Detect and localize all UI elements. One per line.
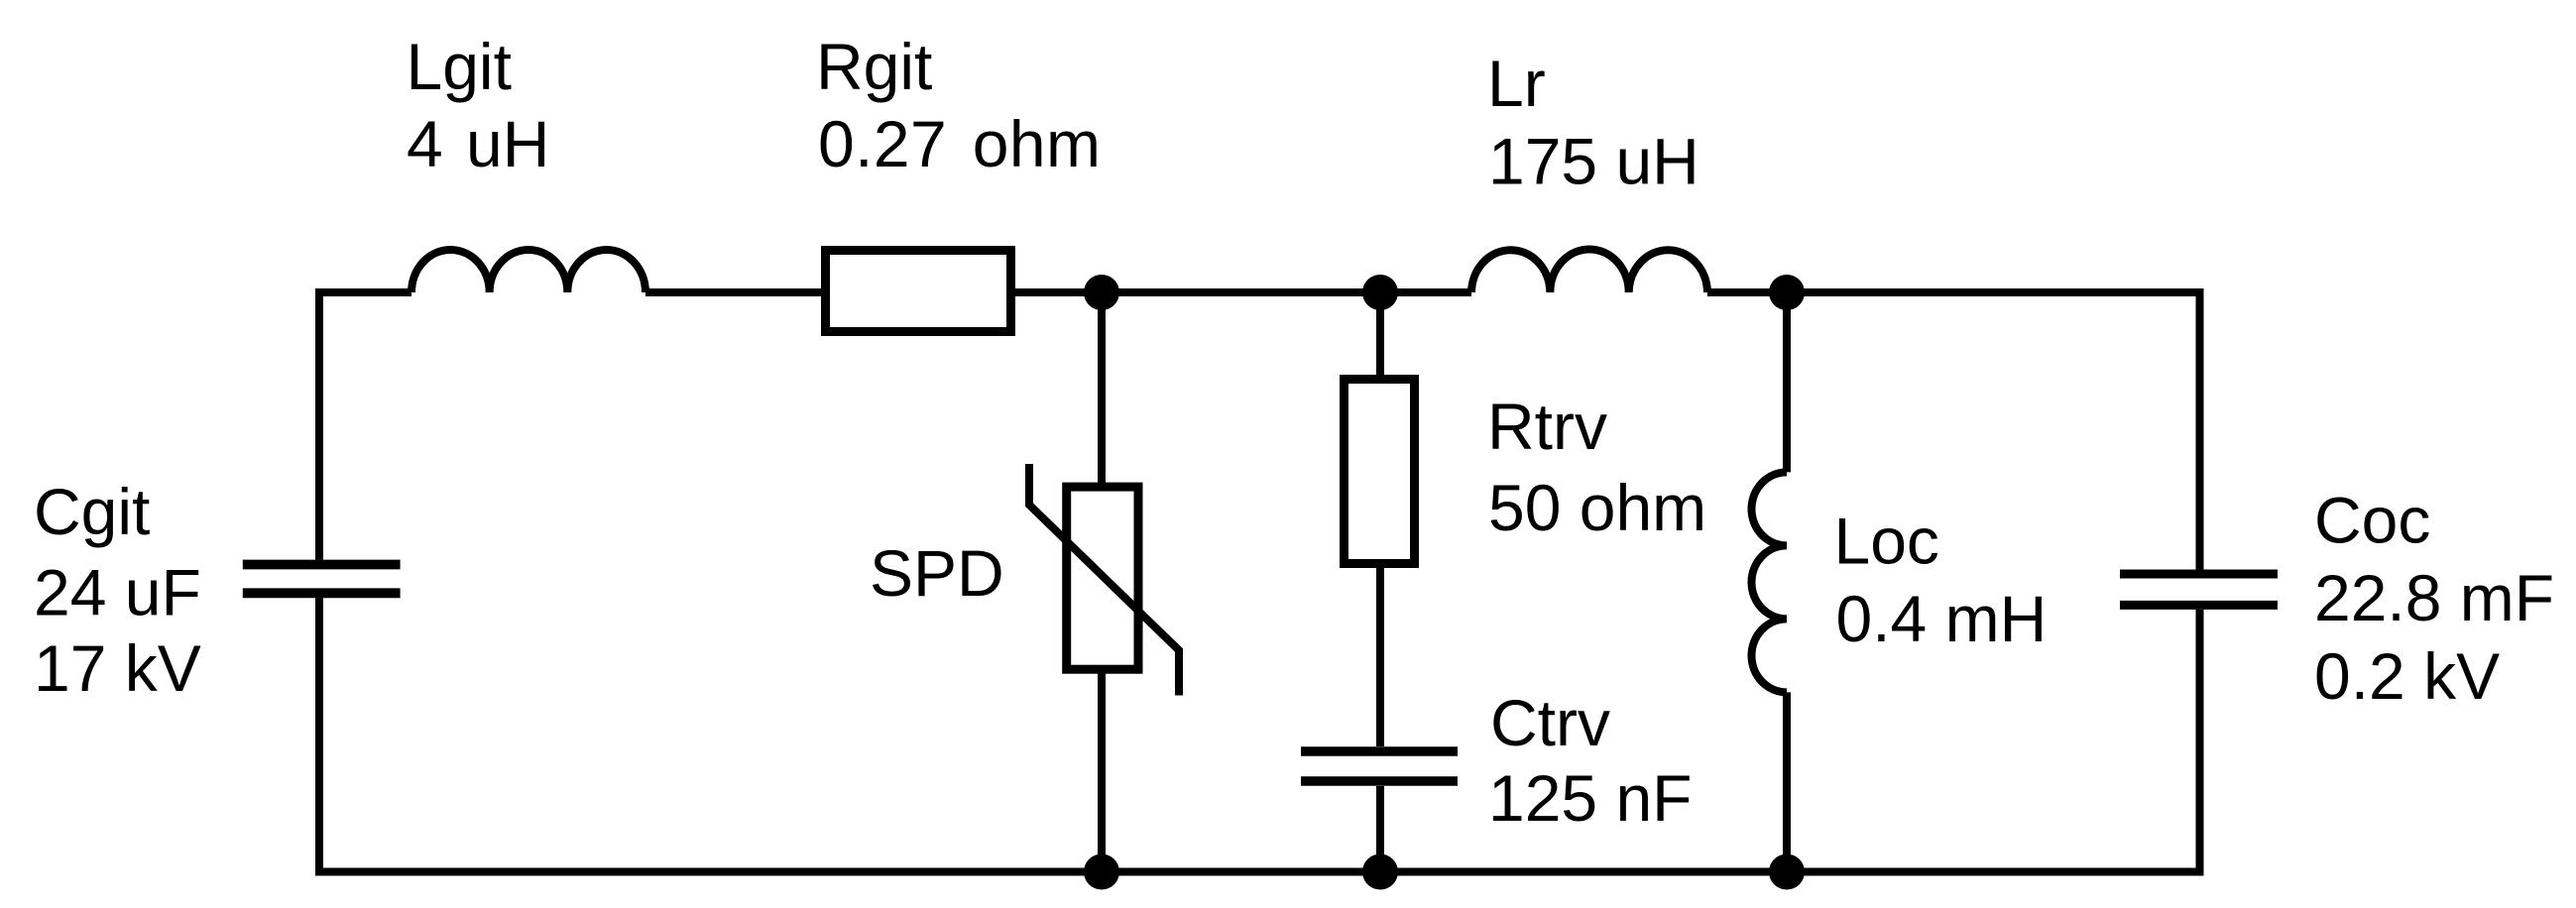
svg-text:Rgit: Rgit: [816, 30, 932, 103]
svg-text:Lr: Lr: [1487, 47, 1546, 120]
svg-text:17 kV: 17 kV: [34, 631, 201, 705]
svg-text:Loc: Loc: [1834, 505, 1939, 578]
svg-text:125 nF: 125 nF: [1488, 761, 1692, 835]
svg-text:Cgit: Cgit: [34, 475, 150, 548]
svg-text:Coc: Coc: [2314, 484, 2430, 557]
svg-text:Rtrv: Rtrv: [1487, 390, 1607, 463]
svg-text:SPD: SPD: [870, 536, 1004, 610]
svg-text:Lgit: Lgit: [407, 30, 512, 103]
svg-text:0.4 mH: 0.4 mH: [1836, 582, 2048, 655]
svg-text:50 ohm: 50 ohm: [1488, 471, 1706, 544]
svg-text:4 uH: 4 uH: [407, 107, 549, 180]
svg-text:24 uF: 24 uF: [34, 556, 201, 629]
svg-text:0.27 ohm: 0.27 ohm: [818, 107, 1101, 180]
svg-text:22.8 mF: 22.8 mF: [2314, 561, 2554, 634]
svg-text:175 uH: 175 uH: [1488, 125, 1699, 198]
svg-text:0.2 kV: 0.2 kV: [2314, 639, 2500, 713]
svg-text:Ctrv: Ctrv: [1490, 686, 1610, 759]
